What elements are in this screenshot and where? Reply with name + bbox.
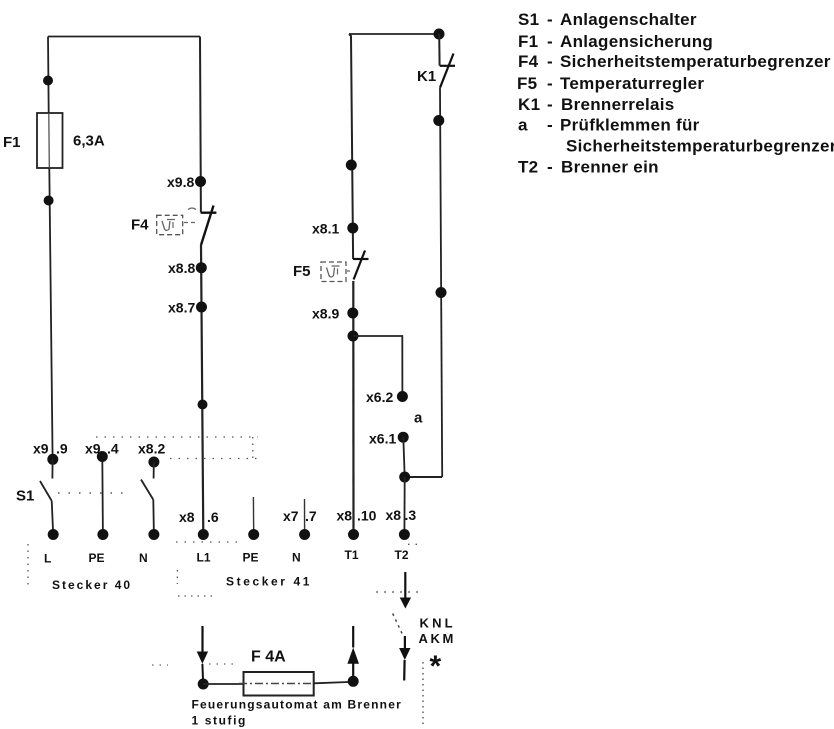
thermostat body F5 [321,262,346,282]
node x8.2 [148,457,159,468]
wire N2 stub [304,499,306,535]
node x9.9 [47,454,58,465]
connector outline dotted (Stecker41 bottom) [176,541,240,543]
wire top horizontal L to L1 column [48,36,200,38]
contact F4 [201,211,217,213]
svg-text:PE: PE [89,551,105,565]
wire branch to x6.2 [353,336,402,396]
dashed blade burner switch [393,614,403,634]
terminal T1 [348,529,359,540]
terminal L [48,529,59,540]
wire PE column [101,457,104,535]
svg-text:1 stufig: 1 stufig [192,714,247,728]
svg-text:T2: T2 [395,548,409,562]
terminal PE2 [248,529,259,540]
svg-text:x8.1: x8.1 [312,221,339,237]
svg-text:x6.2: x6.2 [366,389,393,405]
svg-text:N: N [292,551,301,565]
svg-text:x8.7: x8.7 [168,300,195,316]
svg-text:x8.2: x8.2 [138,441,165,457]
wire L1 down arrow [201,626,203,652]
svg-text:x6.1: x6.1 [369,431,396,447]
svg-text:L: L [44,552,51,566]
svg-text:AKM: AKM [419,631,456,646]
wire T2 to burner arrow [404,572,406,599]
svg-text:L1: L1 [197,551,211,565]
terminal N [148,529,159,540]
svg-text:F4-Sicherheitstemperaturbegren: F4-Sicherheitstemperaturbegrenzer [518,52,831,71]
svg-text:x8.9: x8.9 [312,306,339,322]
svg-text:a: a [414,410,423,427]
wire fuse to node [314,682,349,683]
wire K1 column [440,88,442,477]
wire PE2 stub [252,497,254,535]
contact F5 [353,258,369,260]
wire to fuse F4A [203,683,243,685]
svg-text:F1: F1 [3,134,21,151]
connector outline dotted (left) [27,544,29,588]
switch S1 pole N [153,462,155,479]
svg-text:N: N [139,551,148,565]
wire L1 column lower [201,245,203,535]
dotted vertical right bottom [422,662,424,727]
terminal N2 [299,529,310,540]
node x8.8 [196,262,207,273]
wire top middle horizontal [349,33,439,35]
fuse F1 [37,113,63,168]
node T1 column junction upper [346,160,357,171]
node x8.1 [347,223,358,234]
svg-text:x8.3: x8.3 [386,507,417,523]
node x8.7 [196,302,207,313]
dotted boundary burner [152,664,168,666]
connector outline dotted (Stecker41 top) [96,436,258,438]
node x6.1 [398,432,409,443]
wire x6.1 to junction [403,437,404,477]
svg-text:F 4A: F 4A [251,649,286,666]
node x9.8 [195,176,206,187]
svg-text:6,3A: 6,3A [73,133,105,150]
fuse F 4A [244,672,314,696]
wire L column below fuse [49,168,52,459]
wire K1 bottom horizontal [405,476,443,478]
node T1 branch junction [348,331,359,342]
contact K1 [438,34,440,66]
svg-text:PE: PE [243,551,259,565]
terminal L1 [198,529,209,540]
node K1 column mid junction [436,287,447,298]
switch S1 [51,459,53,478]
svg-text:Sicherheitstemperaturbegrenzer: Sicherheitstemperaturbegrenzer [566,137,834,156]
terminal T2 [399,529,410,540]
svg-text:Feuerungsautomat am Brenner: Feuerungsautomat am Brenner [192,698,402,712]
dashed line across T2 arrow [376,591,424,593]
node L-column upper junction [43,76,53,86]
svg-text:F1-Anlagensicherung: F1-Anlagensicherung [518,32,713,51]
node K1 lower junction [433,115,444,126]
node F1 bottom junction [44,196,54,206]
node K1 top [434,29,445,40]
svg-text:K1: K1 [417,68,436,85]
wire up arrow to T1 [352,664,354,682]
node x8.9 [347,308,358,319]
svg-text:x8.8: x8.8 [168,260,195,276]
svg-text:Stecker 40: Stecker 40 [52,578,132,592]
linkage S1 dotted [58,492,130,494]
node burner right [348,676,359,687]
wire T1 column upper [349,34,353,259]
svg-text:Stecker 41: Stecker 41 [226,575,312,589]
wire arrow into burner [404,636,406,649]
wire T1 column lower [352,281,354,535]
thermostat body F4 [157,215,183,234]
node burner left [198,679,209,690]
svg-text:S1: S1 [16,488,34,505]
wire L1 column upper [199,37,202,213]
wire junction to T2 [403,477,405,535]
svg-text:KNL: KNL [420,616,456,631]
svg-text:F5: F5 [293,263,311,280]
node T2 junction [399,472,410,483]
svg-text:*: * [430,650,442,683]
svg-text:T1: T1 [345,548,359,562]
svg-text:x8.10: x8.10 [337,508,377,524]
svg-text:x9.8: x9.8 [167,174,194,190]
svg-text:F4: F4 [131,217,149,234]
node x6.2 [397,391,408,402]
wire L column above fuse [47,37,50,114]
node L1 column junction [198,400,208,410]
terminal PE [97,529,108,540]
node x9.4 [97,451,108,462]
